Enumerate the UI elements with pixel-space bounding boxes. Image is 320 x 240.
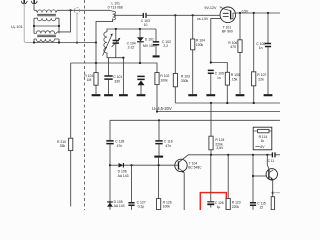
svg-text:BC 548C: BC 548C: [188, 165, 202, 169]
wire right stub x59: [58, 18, 60, 42]
wire mixer node y63: [71, 63, 157, 73]
label C101: [113, 75, 122, 83]
node at (211,103): [210, 102, 212, 104]
wire L102 bottom y57.7: [107, 54, 123, 58]
svg-text:C 11: C 11: [268, 159, 275, 163]
svg-text:2,2: 2,2: [163, 44, 168, 48]
svg-text:C 116: C 116: [164, 139, 173, 143]
node at (192.7,15.3): [192, 14, 194, 16]
svg-text:AA 143: AA 143: [114, 204, 125, 208]
diode D106: [110, 163, 175, 168]
svg-text:0,5V: 0,5V: [242, 10, 249, 14]
svg-text:22: 22: [260, 206, 264, 210]
label tuning voltage: [152, 106, 172, 111]
svg-text:R 210: R 210: [57, 140, 66, 144]
dashed screen boundary: [84, 0, 86, 210]
label R123: [232, 201, 241, 209]
svg-text:100k: 100k: [163, 205, 171, 209]
ground R106: [236, 94, 245, 96]
diode D105: [107, 202, 113, 210]
svg-text:100k: 100k: [160, 79, 168, 83]
capacitor C126: [207, 155, 214, 208]
antenna terminal J2: [31, 0, 37, 4]
svg-text:470: 470: [230, 45, 236, 49]
ground (bypass): [119, 94, 128, 96]
transistor T105: [266, 155, 277, 180]
capacitor C101: [104, 58, 112, 94]
svg-text:33k: 33k: [60, 144, 66, 148]
svg-text:R 105: R 105: [231, 73, 240, 77]
node at (110,165.7): [109, 164, 111, 166]
resistor R102: [155, 73, 159, 112]
capacitor C105: [208, 70, 214, 94]
svg-text:D 101: D 101: [145, 37, 154, 41]
node at (59,26): [58, 25, 60, 27]
node at (211,155.4): [210, 154, 212, 156]
ground C102: [153, 55, 160, 57]
wire left stub x34: [33, 18, 35, 42]
node at (253,155.4): [252, 154, 254, 156]
label R126: [163, 200, 172, 208]
svg-text:330k: 330k: [181, 79, 189, 83]
svg-text:47n: 47n: [117, 144, 123, 148]
label R104: [196, 38, 205, 47]
node at (158.6,165.7): [158, 164, 160, 166]
node at (267.3,155.4): [266, 154, 268, 156]
svg-text:22k: 22k: [258, 77, 264, 81]
node at (253.7,13): [253, 12, 255, 14]
label D106: [118, 170, 129, 178]
wire terminal J2 to L1: [33, 5, 35, 11]
svg-text:1n: 1n: [259, 46, 263, 50]
label T104: [188, 161, 202, 169]
label R124: [215, 138, 224, 147]
capacitor C116: [155, 120, 162, 155]
resistor R107: [252, 13, 256, 103]
label L101 part number: [108, 1, 123, 9]
wire emitter out: [273, 192, 280, 194]
capacitor C102: [153, 29, 159, 55]
svg-text:R 124: R 124: [215, 138, 224, 142]
svg-text:1M: 1M: [87, 78, 92, 82]
ground C105: [206, 94, 215, 96]
svg-text:9V-12V: 9V-12V: [204, 6, 217, 10]
label C103: [141, 19, 150, 27]
transformer L2 bottom winding: [34, 39, 59, 42]
label C105: [215, 72, 224, 80]
capacitor C103 (series): [114, 13, 220, 18]
resistor R124: [209, 103, 213, 155]
capacitor C115: [250, 155, 256, 210]
label R103: [181, 75, 190, 84]
node at (96,42.5): [95, 41, 97, 43]
label D101: [143, 37, 155, 48]
ground R104: [188, 94, 197, 96]
transformer L1 (input filter) top winding: [34, 10, 57, 13]
label 2,6V: [216, 146, 224, 150]
node at (253,176): [252, 175, 254, 177]
wire tuning voltage line y111.5: [157, 111, 280, 113]
svg-text:2-22: 2-22: [128, 46, 135, 50]
svg-text:R 101: R 101: [84, 74, 93, 78]
transistor T101 BF900: [220, 7, 236, 23]
svg-text:2,6V: 2,6V: [216, 146, 224, 150]
node at (157,111.5): [156, 110, 158, 112]
wire T101 output y13: [235, 12, 280, 14]
node at (159,120.3): [158, 119, 160, 121]
svg-text:Ue 101: Ue 101: [11, 25, 23, 30]
node at (227.3,103): [226, 102, 228, 104]
resistor R103: [173, 15, 177, 103]
svg-text:R 107: R 107: [257, 73, 266, 77]
transformer L2 (input filter) top winding: [34, 31, 58, 34]
wire oscillator line y155.4: [188, 154, 272, 156]
node at (228.2,155.4): [227, 154, 229, 156]
label D105: [114, 200, 125, 208]
svg-text:1n: 1n: [217, 76, 221, 80]
trimmer capacitor C104: [112, 29, 121, 58]
wire base T105: [253, 175, 266, 177]
label Ue 101: [11, 25, 23, 30]
ground varicap: [137, 94, 146, 96]
wire T104 emitter: [183, 173, 185, 210]
resistor R106: [238, 13, 242, 94]
svg-text:R 102: R 102: [160, 74, 169, 78]
svg-text:R 103: R 103: [181, 75, 190, 79]
node at (59,42.5): [58, 41, 60, 43]
label R106: [228, 41, 237, 49]
resistor R105: [225, 72, 229, 103]
svg-text:U=4,5-20V: U=4,5-20V: [152, 106, 172, 111]
label R102: [160, 74, 169, 83]
resistor R126: [157, 165, 161, 209]
label C116: [164, 139, 173, 147]
label gate voltage: [197, 17, 209, 21]
label output voltage: [242, 10, 249, 14]
resistor R210: [69, 138, 73, 150]
label C108: [256, 42, 265, 50]
svg-text:330: 330: [114, 79, 120, 83]
svg-text:100k: 100k: [196, 43, 204, 47]
node at (272.7,192.7): [272, 192, 274, 194]
inductor L102 tunable: [103, 32, 113, 56]
wire gate2 bias y62.5: [211, 63, 228, 73]
highlight box (red) around C126: [200, 193, 226, 212]
label C102: [162, 40, 171, 48]
svg-text:6V: 6V: [260, 145, 265, 149]
diode D101: [137, 29, 144, 63]
wire center jumper y26: [34, 25, 59, 27]
wire RF top line y10.8: [57, 9, 110, 11]
node at (123.4,57.7): [122, 57, 124, 59]
svg-text:47n: 47n: [165, 144, 171, 148]
label R105: [231, 73, 240, 81]
wire bypass x123.4 to ground: [122, 58, 124, 94]
node at (34,26): [33, 25, 35, 27]
feedthrough capacitor (screen): [74, 8, 80, 43]
transformer L2 core: [37, 35, 56, 36]
wire main bus y120.3: [110, 119, 280, 121]
transistor T104 BC548C: [175, 159, 187, 173]
wire L101 bottom jog to tank: [96, 20, 113, 63]
svg-text:0 713 068: 0 713 068: [108, 6, 123, 10]
node at (141,63): [139, 62, 141, 64]
label C104 value: [127, 41, 136, 49]
resistor R101: [94, 63, 98, 94]
wire ground stub to base line: [158, 158, 160, 166]
svg-text:1k: 1k: [261, 139, 265, 143]
svg-text:BF 900: BF 900: [222, 30, 233, 34]
svg-text:10: 10: [144, 23, 148, 27]
node at (95,63): [95, 62, 97, 64]
label R107: [257, 73, 266, 81]
svg-text:220k: 220k: [232, 205, 240, 209]
ground C108: [264, 94, 273, 96]
label T101: [222, 25, 233, 33]
inductor L101: [110, 10, 116, 20]
svg-text:C 128: C 128: [115, 139, 124, 143]
ground C101: [104, 94, 113, 96]
label R101: [84, 74, 93, 82]
node at (115.8,29): [115, 28, 117, 30]
capacitor C127: [128, 165, 134, 210]
label C115: [257, 201, 266, 209]
capacitor C128: [106, 120, 113, 201]
label C127: [137, 200, 146, 208]
resistor R123: [226, 155, 230, 210]
svg-text:R 104: R 104: [196, 38, 205, 42]
svg-text:ca.1,5V: ca.1,5V: [197, 17, 209, 21]
node at (175.3,15.3): [174, 14, 176, 16]
wire x70.7 down to R210: [70, 63, 72, 207]
transformer L1 core: [37, 14, 56, 15]
wire terminal J1 down: [24, 3, 34, 42]
ground R101: [92, 94, 101, 96]
antenna terminal J1: [21, 0, 27, 4]
capacitor C113 (series): [268, 152, 280, 162]
wire supply rail y103: [175, 102, 280, 104]
ground C116: [154, 156, 163, 158]
resistor R104: [191, 15, 195, 94]
node at (139.9,29): [139, 28, 141, 30]
label R210: [57, 140, 66, 148]
node at (131.5,165.7): [130, 164, 132, 166]
node at (268,13): [267, 12, 269, 14]
wire branch x70.5 to L2: [58, 10, 71, 32]
node at (253.7,103): [253, 102, 255, 104]
resistor R (right edge): [271, 197, 274, 210]
oscillator module box R114: [253, 127, 272, 150]
svg-text:R 106: R 106: [228, 41, 237, 45]
svg-text:AA 143: AA 143: [118, 174, 129, 178]
label C128: [115, 139, 124, 147]
transformer L1 bottom winding: [34, 18, 59, 21]
label C126: [215, 201, 224, 209]
wire ground bus y42.5: [34, 42, 96, 44]
capacitor C108: [265, 13, 271, 94]
label supply 9V-12V: [204, 6, 217, 10]
node at (34,42.5): [33, 41, 35, 43]
node at (70.5,10.8): [69, 9, 71, 11]
svg-text:0,1µ: 0,1µ: [138, 205, 145, 209]
node at (240,13): [239, 12, 241, 14]
node at (210.8,62.5): [210, 61, 212, 63]
wire T105 emitter: [272, 180, 274, 197]
wire gate2 stub: [211, 19, 221, 63]
svg-text:15k: 15k: [232, 77, 238, 81]
svg-text:1µ: 1µ: [217, 205, 221, 209]
node at (77,42.5): [76, 41, 78, 43]
varicap D102: [137, 76, 144, 94]
wire T104 collector: [179, 155, 189, 163]
wire tank bus y29: [107, 29, 156, 32]
